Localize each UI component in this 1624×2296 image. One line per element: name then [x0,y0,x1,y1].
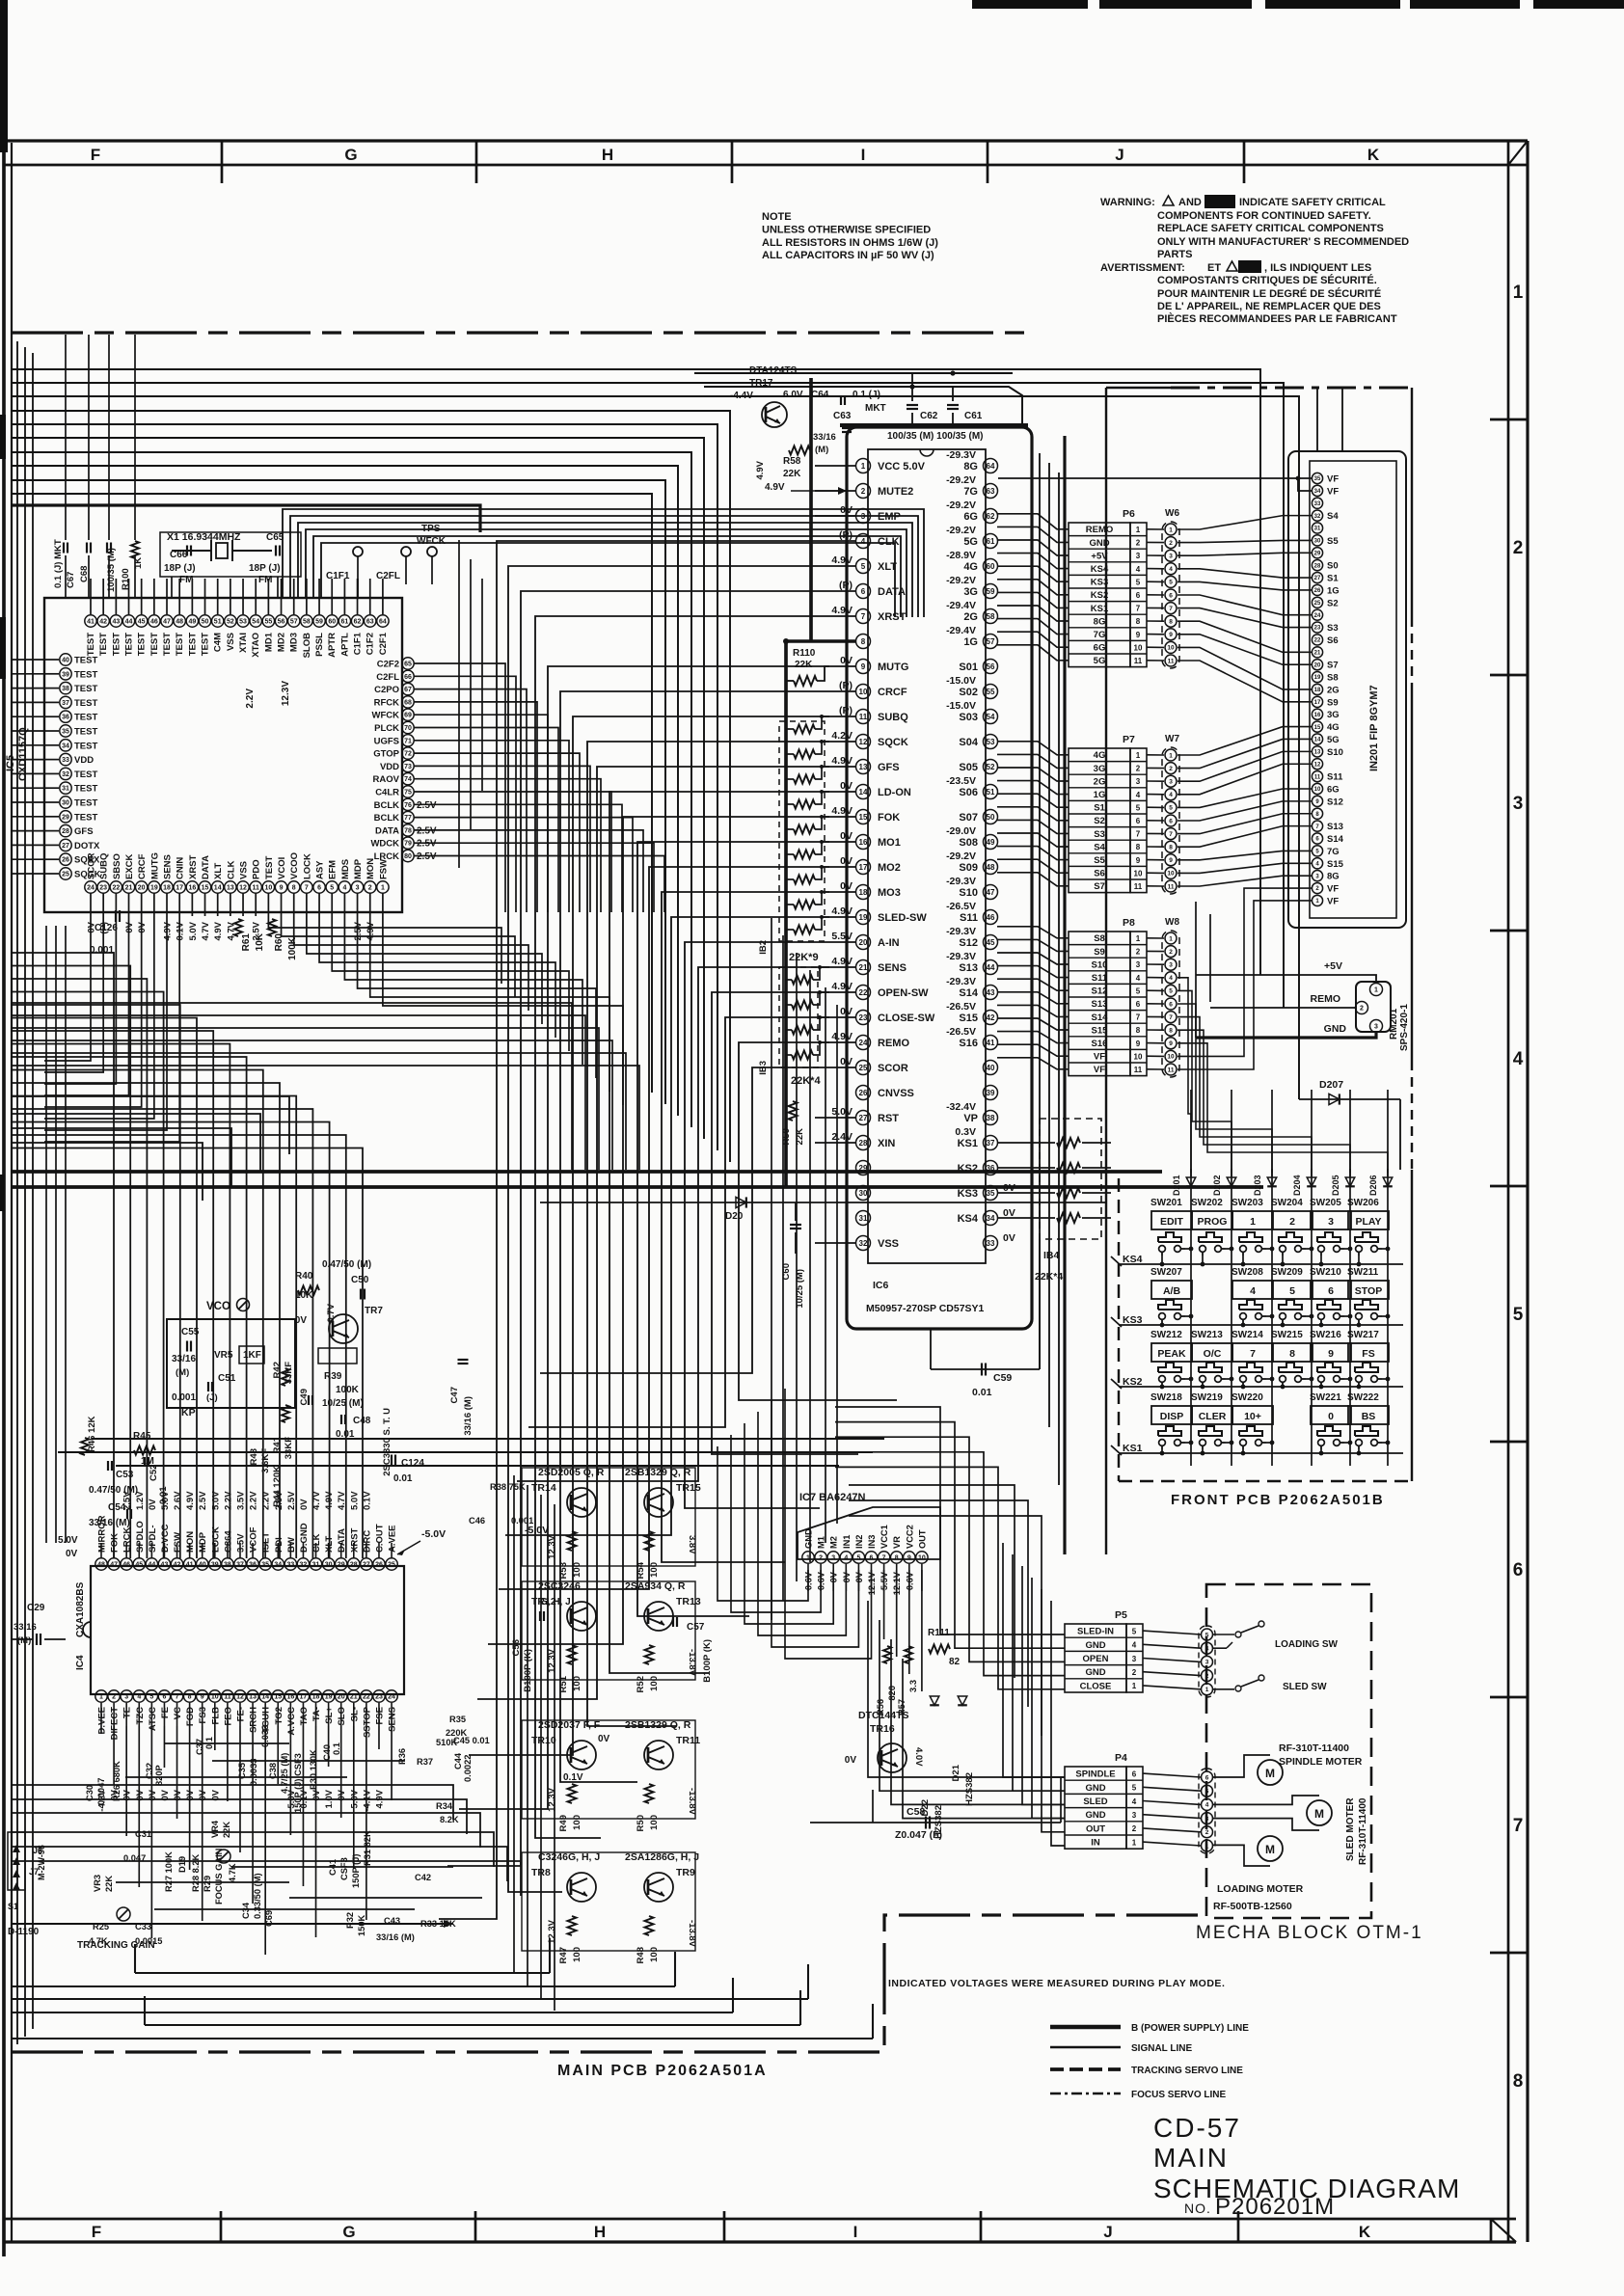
svg-text:IB4: IB4 [1043,1250,1060,1261]
svg-text:MDP: MDP [198,1531,208,1553]
svg-text:8: 8 [1289,1348,1295,1360]
svg-text:44: 44 [125,619,133,626]
svg-text:0.0022: 0.0022 [463,1755,473,1782]
svg-text:FS: FS [1362,1348,1374,1360]
svg-text:25: 25 [62,872,69,878]
svg-text:100/35 (M): 100/35 (M) [106,548,117,592]
svg-text:24: 24 [1314,613,1321,619]
svg-text:25: 25 [388,1562,395,1569]
svg-text:2.6V: 2.6V [173,1491,183,1510]
svg-text:C58: C58 [907,1806,925,1818]
svg-text:C864: C864 [223,1530,233,1553]
svg-text:R110: R110 [793,648,816,659]
svg-text:C59: C59 [993,1372,1012,1384]
svg-text:R61: R61 [241,933,252,952]
svg-text:8: 8 [861,637,866,646]
svg-text:1: 1 [1205,1687,1209,1693]
wire left mid horizontal lines [12,1096,289,1154]
svg-text:I: I [861,146,866,164]
svg-text:820P: 820P [154,1765,164,1786]
svg-text:R56: R56 [876,1699,885,1715]
svg-text:52: 52 [987,763,995,771]
svg-text:GND: GND [1085,1667,1105,1678]
svg-text:SW209: SW209 [1271,1267,1303,1278]
svg-text:21: 21 [350,1694,358,1701]
connector P4 pin circles [1199,1769,1215,1853]
svg-text:D206: D206 [1368,1175,1378,1196]
svg-text:2.2V: 2.2V [223,1491,233,1510]
svg-text:KS3: KS3 [1123,1314,1143,1326]
svg-text:S9: S9 [1094,947,1105,958]
svg-text:ALL CAPACITORS IN µF 50 WV (J): ALL CAPACITORS IN µF 50 WV (J) [762,250,934,261]
connector P8 [1069,932,1130,1076]
svg-text:13: 13 [1314,750,1321,756]
svg-text:SENS: SENS [388,1707,398,1732]
svg-text:-5.0V: -5.0V [421,1528,446,1540]
svg-text:3: 3 [1374,1024,1378,1031]
svg-text:RF-310T-11400: RF-310T-11400 [1358,1797,1368,1865]
svg-text:TRACKING SERVO LINE: TRACKING SERVO LINE [1131,2066,1243,2076]
svg-text:48: 48 [176,619,183,626]
svg-text:2: 2 [861,487,866,496]
svg-text:2.5V: 2.5V [286,1491,297,1510]
svg-text:22K*9: 22K*9 [789,952,819,963]
svg-text:REMO: REMO [1086,525,1114,535]
svg-text:8G: 8G [1327,872,1340,882]
svg-text:C2FL: C2FL [376,571,400,581]
svg-text:6: 6 [1136,591,1141,600]
svg-text:R48: R48 [636,1947,646,1963]
svg-text:SPDL-: SPDL- [148,1526,158,1553]
svg-text:2.5V: 2.5V [417,825,437,836]
wire P7 to W7 [1147,754,1164,756]
IC4 bottom pins 1-24 [95,1690,107,1702]
svg-text:-4.1V: -4.1V [362,1789,372,1811]
svg-text:S4: S4 [1094,842,1105,852]
svg-text:6: 6 [870,1555,874,1562]
svg-text:S5: S5 [1094,855,1105,866]
svg-text:2.2V: 2.2V [249,1491,259,1510]
svg-text:150P (J): 150P (J) [351,1854,361,1889]
svg-text:(M): (M) [176,1367,189,1378]
wire motor drive bundle to P4 [868,1601,1065,1777]
svg-text:SW218: SW218 [1150,1392,1182,1403]
svg-text:25: 25 [1314,601,1321,607]
svg-text:-29.2V: -29.2V [946,575,976,586]
svg-text:-29.3V: -29.3V [946,876,976,887]
svg-text:0.1V: 0.1V [176,921,186,940]
svg-text:CRCF: CRCF [137,853,148,879]
svg-text:PSSL: PSSL [314,633,325,657]
svg-text:0V: 0V [840,855,853,867]
svg-text:R46 12K: R46 12K [87,1416,97,1452]
svg-text:36: 36 [62,715,69,721]
svg-text:4: 4 [861,537,866,546]
svg-text:MUTG: MUTG [878,662,908,673]
svg-text:3: 3 [1136,960,1141,969]
svg-text:5.0V: 5.0V [58,1535,78,1546]
svg-text:21: 21 [1314,650,1321,656]
svg-text:3: 3 [124,1694,128,1701]
svg-text:J: J [1115,146,1123,164]
svg-text:34: 34 [1314,489,1321,495]
svg-text:S14: S14 [1327,834,1344,845]
IC5 bottom pins 24-1 [85,881,96,893]
svg-text:9: 9 [280,885,284,892]
svg-text:2: 2 [1136,948,1141,957]
svg-text:C67: C67 [66,572,76,588]
svg-text:23: 23 [99,885,107,892]
connector P5 [1065,1624,1126,1692]
svg-text:D20: D20 [725,1211,744,1222]
wire +5V to RM201 [1196,975,1376,983]
svg-text:TEST: TEST [162,633,173,656]
svg-text:5: 5 [1513,1305,1524,1325]
wire key scan line KS3 [1119,1324,1403,1326]
svg-text:CLER: CLER [1199,1411,1227,1422]
svg-text:C44: C44 [453,1752,463,1769]
svg-text:-23.5V: -23.5V [946,775,976,787]
capacitor C53 [107,1461,109,1471]
svg-text:47: 47 [163,619,171,626]
svg-text:32: 32 [62,771,69,778]
svg-text:M: M [1314,1807,1324,1821]
diode D202 [1227,1177,1236,1186]
wire IC6 top supply bus [840,423,1028,427]
svg-text:-29.2V: -29.2V [946,500,976,511]
svg-text:33: 33 [1314,501,1321,507]
svg-text:DATA: DATA [201,855,211,879]
svg-text:NO.: NO. [1184,2201,1211,2216]
svg-text:BW: BW [286,1537,297,1553]
svg-text:42: 42 [987,1013,995,1022]
svg-text:59: 59 [315,619,323,626]
switch LOADING SW [1213,1634,1234,1635]
svg-text:FS3: FS3 [198,1707,208,1723]
IC6 outer bold outline [847,427,1032,1329]
svg-text:21: 21 [859,963,868,972]
svg-text:52: 52 [227,619,234,626]
svg-text:24: 24 [388,1694,395,1701]
svg-text:9: 9 [201,1694,204,1701]
svg-text:12: 12 [1314,762,1321,768]
svg-text:11: 11 [1134,657,1143,665]
svg-text:IN201 FIP 8GYM7: IN201 FIP 8GYM7 [1368,685,1380,771]
svg-text:62: 62 [987,512,995,521]
svg-text:S12: S12 [959,937,978,949]
svg-text:24: 24 [87,885,95,892]
svg-text:WFCK: WFCK [417,536,447,547]
svg-text:17: 17 [176,885,183,892]
svg-text:40: 40 [987,1064,995,1072]
svg-text:12: 12 [859,738,868,746]
svg-text:2: 2 [1136,539,1141,548]
svg-text:TEST: TEST [124,633,135,656]
motor sled RF-310T-11400 [1213,1796,1319,1804]
svg-text:TEST: TEST [175,633,185,656]
svg-text:6: 6 [1328,1285,1334,1297]
svg-text:10K: 10K [255,932,265,951]
svg-text:TAO: TAO [299,1707,310,1725]
svg-text:IN1: IN1 [842,1535,852,1549]
svg-text:0.01: 0.01 [972,1387,992,1398]
wire C1F1 C2FL verticals [357,579,359,598]
svg-text:VDD: VDD [74,755,94,766]
svg-text:10: 10 [918,1555,926,1562]
svg-text:D21: D21 [951,1764,961,1781]
svg-text:38: 38 [62,686,69,692]
svg-text:TE: TE [122,1707,133,1718]
switch SLED SW [1213,1688,1234,1690]
svg-text:SSTOP: SSTOP [362,1706,372,1738]
svg-text:17: 17 [859,863,868,872]
svg-text:42: 42 [174,1562,181,1569]
diode D20 [540,1202,1106,1203]
svg-text:GFS: GFS [74,826,94,837]
svg-text:44: 44 [148,1562,155,1569]
wire IC7 right pins down [883,1570,885,1639]
svg-text:15: 15 [274,1694,282,1701]
svg-text:8: 8 [188,1694,192,1701]
svg-text:(J): (J) [206,1392,218,1403]
svg-text:GND: GND [1324,1023,1347,1035]
svg-text:SW215: SW215 [1271,1330,1303,1340]
svg-text:18P (J): 18P (J) [164,563,196,574]
svg-text:REMO: REMO [1311,993,1341,1005]
svg-text:KP: KP [181,1407,196,1418]
svg-text:22K: 22K [104,1876,114,1892]
svg-text:P6: P6 [1123,508,1135,520]
svg-text:31: 31 [1314,527,1321,532]
svg-text:20: 20 [138,885,146,892]
svg-text:R43: R43 [249,1448,259,1465]
svg-text:VF: VF [1094,1052,1105,1063]
MECHA BLOCK OTM-1 dashed boundary [1206,1584,1371,1918]
svg-text:APTL: APTL [339,633,350,657]
svg-text:D19: D19 [177,1856,187,1873]
svg-text:29: 29 [1314,551,1321,556]
svg-text:P5: P5 [1115,1609,1127,1621]
svg-text:MO3: MO3 [878,887,901,899]
svg-text:100/35 (M) 100/35 (M): 100/35 (M) 100/35 (M) [887,431,984,442]
resistor R47 100 [568,1916,577,1935]
svg-text:4: 4 [342,885,346,892]
resistor array IB3 22K*4 [779,967,818,1067]
svg-text:22: 22 [363,1694,370,1701]
svg-text:XIN: XIN [878,1138,895,1149]
svg-text:A-IN: A-IN [878,937,900,949]
svg-text:2G: 2G [1094,776,1106,787]
svg-text:KS1: KS1 [958,1138,978,1149]
svg-text:C29: C29 [27,1603,45,1613]
wire cap column leads above IC5 [65,335,67,540]
svg-text:3: 3 [1205,1660,1209,1666]
wire transistor pair frame [522,1720,695,1819]
wire transistor pair frame [522,1581,695,1680]
wire key scan line KS2 [1119,1386,1403,1388]
svg-text:3.5V: 3.5V [235,1533,246,1553]
svg-text:4.0V: 4.0V [913,1747,924,1767]
svg-text:FSE: FSE [374,1707,385,1724]
svg-text:4.7K: 4.7K [228,1863,237,1882]
svg-text:3: 3 [1132,1811,1137,1820]
wire GND to RM201 [1196,1033,1376,1038]
svg-text:K: K [1367,146,1380,164]
svg-text:S06: S06 [959,787,978,798]
svg-text:SLED-IN: SLED-IN [1077,1627,1114,1637]
svg-text:LOADING SW: LOADING SW [1275,1639,1339,1650]
svg-text:Z0.047 (F): Z0.047 (F) [895,1829,942,1841]
svg-text:31: 31 [859,1214,868,1223]
svg-text:0V: 0V [148,1499,158,1510]
svg-text:2: 2 [1132,1824,1137,1833]
resistor R49 100 [568,1784,577,1803]
svg-text:33: 33 [286,1562,294,1569]
svg-text:24: 24 [859,1039,868,1047]
svg-text:4.7/25 (M): 4.7/25 (M) [280,1753,289,1794]
svg-text:PEAK: PEAK [1157,1348,1186,1360]
svg-text:VCOO: VCOO [289,852,300,879]
svg-text:33/16: 33/16 [813,432,836,443]
wire left-edge staircase to middle channel [12,1003,572,1170]
svg-text:IN: IN [1091,1838,1100,1849]
svg-text:7: 7 [176,1694,179,1701]
svg-text:C126: C126 [95,923,118,933]
svg-text:IC5: IC5 [5,755,16,771]
svg-text:MDS: MDS [340,859,351,879]
svg-text:17: 17 [300,1694,308,1701]
connector W8 wire bundle [1162,931,1179,1077]
svg-text:22K: 22K [783,469,801,479]
svg-text:26: 26 [859,1089,868,1097]
svg-text:10: 10 [1167,871,1175,878]
svg-text:-29.3V: -29.3V [946,976,976,987]
svg-text:(M): (M) [815,445,828,455]
svg-text:GTOP: GTOP [373,749,399,760]
wire lower-left horizontal bus [12,1785,453,1820]
svg-text:TEST: TEST [201,633,211,656]
wire left vertical bundle [16,341,18,2044]
svg-text:SLED-SW: SLED-SW [878,912,927,924]
svg-text:46: 46 [150,619,158,626]
transistor TR16 DTC144TS [878,1743,907,1772]
svg-text:S15: S15 [959,1013,978,1024]
svg-text:TEST: TEST [111,633,122,656]
svg-text:SPS-420-1: SPS-420-1 [1399,1004,1410,1051]
svg-text:49: 49 [987,838,995,847]
svg-text:7: 7 [1136,605,1141,613]
resistor array IB4 22K*4 [1040,1119,1101,1239]
svg-text:VR4: VR4 [210,1820,220,1838]
test point C2FL [401,547,411,556]
IC7 BA6247N motor driver [798,1507,940,1559]
svg-text:VCC1: VCC1 [880,1525,889,1549]
svg-text:BCLK: BCLK [374,800,400,811]
svg-text:100: 100 [572,1815,582,1830]
svg-text:68: 68 [404,699,412,706]
svg-text:SW221: SW221 [1310,1392,1341,1403]
svg-text:DISP: DISP [1160,1411,1184,1422]
IC6 M50957-270SP CD57SY1 microcontroller body [868,449,986,1263]
svg-text:(P): (P) [839,680,853,691]
svg-text:TG2: TG2 [274,1707,284,1724]
svg-text:AND: AND [1178,197,1202,208]
svg-text:4.9V: 4.9V [185,1491,196,1510]
svg-text:28: 28 [350,1562,358,1569]
svg-text:-15.0V: -15.0V [946,675,976,687]
svg-text:40: 40 [199,1562,206,1569]
svg-text:XRST: XRST [349,1527,360,1553]
svg-text:VF: VF [1327,896,1339,906]
svg-text:70: 70 [404,725,412,732]
svg-text:56: 56 [278,619,285,626]
svg-text:C52: C52 [149,1465,159,1481]
svg-text:0.3V: 0.3V [955,1126,976,1138]
svg-text:EFM: EFM [328,860,338,879]
IC4 top pins 48-25 [95,1558,107,1570]
svg-text:R44 120K: R44 120K [272,1466,283,1507]
wire crystal box [160,532,301,577]
svg-text:4.9V: 4.9V [831,805,853,817]
svg-text:C2F1: C2F1 [378,632,389,655]
svg-text:R40: R40 [295,1271,313,1282]
svg-text:4.9V: 4.9V [831,554,853,566]
svg-text:I: I [853,2223,858,2241]
svg-text:C61: C61 [964,411,983,421]
svg-text:S9: S9 [1327,697,1339,708]
svg-text:SW202: SW202 [1191,1198,1223,1208]
svg-text:EDIT: EDIT [1160,1216,1184,1228]
svg-text:S1: S1 [1094,803,1105,814]
svg-text:M2: M2 [829,1536,839,1549]
capacitor C58 Z0.047(F) [810,1822,1061,1823]
svg-text:FE: FE [160,1707,171,1718]
svg-text:53: 53 [239,619,247,626]
test point TPS WFCK [427,547,437,556]
svg-text:SW212: SW212 [1150,1330,1182,1340]
svg-text:54: 54 [987,713,995,721]
svg-text:0.01: 0.01 [393,1473,413,1484]
capacitor C60 10/25(M) [790,1224,801,1226]
svg-text:2.5V: 2.5V [417,851,437,862]
svg-text:9: 9 [1136,856,1141,865]
svg-text:2.5V: 2.5V [417,839,437,850]
svg-text:63: 63 [366,619,374,626]
svg-text:TEST: TEST [74,713,97,723]
svg-text:S6: S6 [1327,635,1339,646]
svg-text:VR: VR [892,1536,902,1549]
svg-text:TR11: TR11 [676,1735,700,1746]
svg-text:35: 35 [987,1189,995,1198]
svg-text:S0: S0 [1327,561,1339,572]
svg-text:18: 18 [163,885,171,892]
svg-text:6G: 6G [963,511,978,523]
svg-text:4.9V: 4.9V [765,482,785,493]
svg-text:48: 48 [987,863,995,872]
svg-text:R47: R47 [558,1947,569,1963]
svg-text:MON: MON [185,1531,196,1553]
svg-text:4: 4 [1513,1049,1524,1069]
svg-text:6: 6 [1132,1769,1137,1778]
svg-text:2: 2 [1513,538,1524,558]
svg-text:SPDLO: SPDLO [135,1521,146,1553]
wire P4 feeders [1003,1543,1065,1777]
svg-text:C42: C42 [415,1873,431,1882]
svg-text:61: 61 [987,537,995,546]
variable resistor VR3 symbol [117,1907,130,1921]
svg-text:R50: R50 [636,1815,646,1831]
svg-text:33KF: 33KF [284,1437,294,1459]
